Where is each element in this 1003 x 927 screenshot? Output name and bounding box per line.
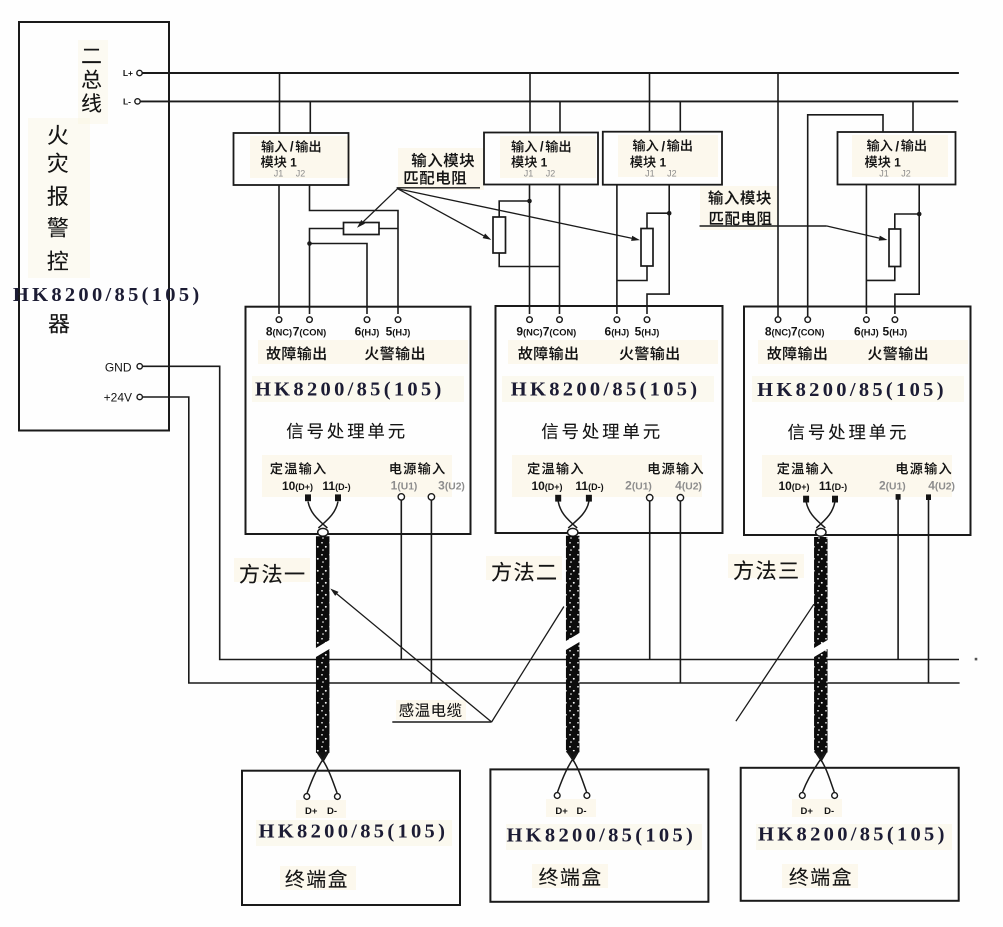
I/O module box 3 输入/输出模块1 bbox=[603, 132, 722, 185]
unit U1 label 电源输入 bbox=[390, 462, 445, 474]
signal processing unit box U2 bbox=[496, 306, 723, 533]
svg-text:10(D+): 10(D+) bbox=[531, 479, 562, 493]
callout line to cable 3 bbox=[736, 604, 814, 721]
wire unit1 U1 power to GND rail bbox=[400, 500, 402, 659]
svg-text:D-: D- bbox=[576, 806, 586, 817]
terminal box 1 pin label D+ bbox=[305, 806, 318, 817]
svg-text:4(U2): 4(U2) bbox=[675, 479, 702, 493]
svg-text:D+: D+ bbox=[555, 806, 568, 817]
terminal +24V label bbox=[104, 391, 132, 405]
unit U2 pin label 4(U2) bbox=[675, 479, 702, 493]
callout line to cable 2 bbox=[492, 607, 564, 723]
I/O module box 1 输入/输出模块1 bbox=[234, 133, 349, 185]
svg-text:L-: L- bbox=[123, 96, 131, 106]
unit U1 pin label 6(HJ) bbox=[355, 325, 380, 339]
unit U3 terminal 5(HJ) bbox=[892, 317, 898, 323]
svg-text:11(D-): 11(D-) bbox=[575, 479, 603, 493]
junction dot bbox=[667, 211, 672, 216]
unit U2 pin label 9(NC) bbox=[516, 325, 542, 339]
unit U1 terminal 5(HJ) bbox=[395, 317, 401, 323]
unit U2 pin label 11(D-) bbox=[575, 479, 603, 493]
terminal box 2 pin label D+ bbox=[555, 806, 568, 817]
wire unit2 U1 power to GND rail bbox=[649, 501, 651, 660]
svg-text:J1: J1 bbox=[274, 169, 284, 179]
unit U3 pin label 4(U2) bbox=[928, 479, 955, 493]
sensing cable 1 (感温电缆, hatched) bbox=[316, 536, 330, 762]
wire resistor R4 top lead bbox=[895, 214, 919, 229]
unit U2 pin label 10(D+) bbox=[531, 479, 562, 493]
terminal box 2 D+ terminal bbox=[554, 793, 560, 799]
wire +24V from controller bbox=[143, 397, 960, 683]
svg-text:9(NC): 9(NC) bbox=[516, 325, 542, 339]
unit U1 power terminal U2 bbox=[428, 494, 434, 500]
svg-text:1(U1): 1(U1) bbox=[391, 479, 418, 493]
label A 输入模块匹配电阻 (callout) bbox=[397, 153, 480, 188]
svg-text:1: 1 bbox=[894, 156, 901, 170]
unit U1 terminal 10(D+) (filled square) bbox=[305, 494, 311, 501]
terminal box 2 D- terminal bbox=[584, 793, 590, 799]
unit U2 label 故障输出 bbox=[518, 346, 577, 360]
svg-text:/: / bbox=[895, 139, 899, 154]
svg-text:2(U1): 2(U1) bbox=[625, 479, 652, 493]
unit U2 model HK8200/85(105) bbox=[511, 378, 701, 400]
terminal box 3 model HK8200/85(105) bbox=[758, 824, 948, 846]
label 方法二 (method 2) bbox=[492, 562, 556, 582]
wire module2 J2 to unit2 terminal 7(CON) bbox=[559, 185, 561, 315]
wire L+ drop to unit3 terminal 8 bbox=[777, 73, 779, 317]
unit U3 terminal 7(CON) bbox=[805, 317, 811, 323]
wire resistor R2 top lead bbox=[499, 201, 529, 217]
wire module1 to unit1 terminal 8(NC) bbox=[278, 185, 280, 314]
svg-text:5(HJ): 5(HJ) bbox=[386, 325, 411, 339]
terminal L- label bbox=[123, 96, 131, 106]
unit U2 label 电源输入 bbox=[649, 462, 704, 474]
terminal box 2 pin label D- bbox=[576, 806, 586, 817]
terminal box 3 pin label D- bbox=[824, 806, 834, 817]
wire module1 J2 to unit1 terminal 5(HJ) bbox=[310, 185, 399, 314]
svg-text:8(NC): 8(NC) bbox=[266, 325, 292, 339]
resistor R2 (matching resistor, vertical) bbox=[493, 217, 506, 253]
unit U1 model HK8200/85(105) bbox=[255, 378, 445, 400]
unit U1 terminal 8(NC) bbox=[276, 317, 282, 323]
terminal GND bbox=[137, 364, 142, 369]
fire alarm controller box HK8200/85(105) bbox=[19, 22, 169, 431]
svg-text:11(D-): 11(D-) bbox=[322, 479, 350, 493]
junction dot node bbox=[307, 241, 312, 246]
label controller model HK8200/85(105) bbox=[13, 284, 203, 306]
unit U1 terminal 11(D-) (filled square) bbox=[335, 494, 341, 501]
wire pair unit U3 10/11 to cable connector (crossed) bbox=[806, 502, 835, 537]
unit U3 power terminal U1 (filled square) bbox=[896, 494, 901, 500]
svg-text:HK8200/85(105): HK8200/85(105) bbox=[511, 378, 701, 400]
unit U1 label 故障输出 bbox=[267, 346, 326, 360]
wire node to unit1 terminal 7(CON) bbox=[309, 244, 311, 315]
unit U1 label 定温输入 bbox=[270, 462, 326, 474]
unit U2 pin label 2(U1) bbox=[625, 479, 652, 493]
wire module4 J2 to L- bbox=[912, 101, 914, 132]
wire bus L- bbox=[140, 100, 958, 102]
svg-text:1: 1 bbox=[541, 156, 548, 170]
svg-text:HK8200/85(105): HK8200/85(105) bbox=[255, 378, 445, 400]
wire resistor R3 top lead bbox=[647, 213, 669, 228]
unit U1 pin label 8(NC) bbox=[266, 325, 292, 339]
svg-text:HK8200/85(105): HK8200/85(105) bbox=[757, 379, 947, 401]
svg-text:+24V: +24V bbox=[104, 391, 132, 405]
unit U1 pin label 1(U1) bbox=[391, 479, 418, 493]
terminal box 1 D+ terminal bbox=[304, 794, 310, 800]
terminal L+ label bbox=[123, 68, 133, 78]
unit U1 pin label 10(D+) bbox=[282, 479, 313, 493]
unit U3 pin label 6(HJ) bbox=[854, 325, 879, 339]
svg-text:10(D+): 10(D+) bbox=[778, 479, 809, 493]
resistor R1 (matching resistor, horizontal) bbox=[344, 223, 380, 235]
svg-text:7(CON): 7(CON) bbox=[293, 325, 327, 339]
wire bus L+ bbox=[142, 72, 959, 74]
unit U1 terminal 6(HJ) bbox=[364, 317, 370, 323]
unit U3 pin label 8(NC) bbox=[765, 325, 791, 339]
unit U3 power terminal U2 (filled square) bbox=[926, 494, 931, 500]
wire unit2 U2 power to +24V rail bbox=[679, 501, 681, 683]
svg-text:7(CON): 7(CON) bbox=[791, 325, 825, 339]
unit U2 label 定温输入 bbox=[527, 462, 583, 474]
unit U2 terminal 6(HJ) bbox=[614, 317, 620, 323]
wire module1 J2 to L- bbox=[309, 101, 311, 133]
unit U3 label 定温输入 bbox=[777, 462, 833, 474]
wire module4 to unit3 terminal 6(HJ) bbox=[865, 185, 867, 315]
unit U2 label 信号处理单元 bbox=[542, 423, 660, 439]
svg-text:D-: D- bbox=[327, 806, 337, 817]
unit U2 label 火警输出 bbox=[620, 346, 679, 360]
wire unit3 U1 power to GND rail bbox=[897, 500, 899, 660]
resistor R3 (matching resistor, vertical) bbox=[641, 229, 653, 267]
unit U3 pin label 10(D+) bbox=[778, 479, 809, 493]
unit U1 pin label 3(U2) bbox=[438, 479, 465, 493]
svg-text:HK8200/85(105): HK8200/85(105) bbox=[758, 824, 948, 846]
unit U1 power terminal U1 bbox=[398, 494, 404, 500]
svg-text:/: / bbox=[540, 139, 544, 154]
unit U3 pin label 5(HJ) bbox=[883, 325, 908, 339]
unit U2 terminal 7(CON) bbox=[557, 317, 563, 323]
unit U3 terminal 6(HJ) bbox=[864, 317, 870, 323]
svg-text:4(U2): 4(U2) bbox=[928, 479, 955, 493]
terminal box 3 (终端盒) bbox=[741, 768, 959, 901]
callout arrow to resistor R2 bbox=[398, 189, 492, 240]
svg-text:J2: J2 bbox=[901, 169, 911, 179]
signal processing unit box U3 bbox=[744, 307, 971, 536]
unit U2 terminal 9(NC) bbox=[527, 317, 533, 323]
svg-text:6(HJ): 6(HJ) bbox=[355, 325, 380, 339]
wire module2 J1 to L+ bbox=[529, 73, 531, 133]
unit U3 label 信号处理单元 bbox=[788, 424, 906, 440]
terminal box 2 label 终端盒 bbox=[539, 867, 601, 886]
unit U3 terminal 8(NC) bbox=[775, 317, 781, 323]
terminal box 1 model HK8200/85(105) bbox=[259, 821, 449, 843]
unit U3 terminal 11(D-) (filled square) bbox=[832, 496, 838, 503]
svg-text:6(HJ): 6(HJ) bbox=[854, 325, 879, 339]
svg-text:8(NC): 8(NC) bbox=[765, 325, 791, 339]
unit U3 terminal 10(D+) (filled square) bbox=[803, 496, 809, 503]
svg-text:6(HJ): 6(HJ) bbox=[605, 325, 630, 339]
svg-text:1: 1 bbox=[290, 156, 297, 170]
wire pair cable 3 to terminal box D+/D- (crossed) bbox=[803, 754, 835, 793]
wire GND from controller bbox=[143, 366, 960, 659]
wire junction dot bbox=[527, 199, 532, 204]
sensing cable 2 (感温电缆, hatched) bbox=[566, 536, 580, 762]
svg-text:7(CON): 7(CON) bbox=[543, 325, 577, 339]
unit U2 pin label 6(HJ) bbox=[605, 325, 630, 339]
unit U1 terminal 7(CON) bbox=[307, 317, 313, 323]
terminal box 2 model HK8200/85(105) bbox=[506, 825, 696, 847]
svg-text:HK8200/85(105): HK8200/85(105) bbox=[259, 821, 449, 843]
wire module2 to unit2 terminal 9(NC) bbox=[529, 185, 531, 315]
terminal box 1 (终端盒) bbox=[242, 771, 460, 905]
svg-text:J2: J2 bbox=[667, 169, 677, 179]
label B 输入模块匹配电阻 (callout) bbox=[708, 190, 771, 225]
terminal box 3 pin label D+ bbox=[800, 806, 813, 817]
terminal GND label bbox=[105, 360, 132, 374]
svg-text:1: 1 bbox=[659, 156, 666, 170]
unit U1 label 火警输出 bbox=[365, 346, 424, 360]
wire pair cable 1 to terminal box D+/D- (crossed) bbox=[307, 754, 337, 793]
wire unit3 U2 power to +24V rail bbox=[928, 500, 930, 683]
unit U2 terminal 5(HJ) bbox=[644, 317, 650, 323]
svg-text:D-: D- bbox=[824, 806, 834, 817]
label bus name 二总线 (vertical) bbox=[82, 49, 101, 113]
I/O module box 4 输入/输出模块1 bbox=[838, 132, 956, 185]
label controller name 火灾报警控 (vertical) bbox=[47, 125, 68, 271]
label 感温电缆 (callout) bbox=[392, 703, 491, 722]
terminal box 3 label 终端盒 bbox=[789, 867, 851, 886]
callout arrow to resistor R3 bbox=[398, 189, 640, 241]
wire module3 to unit2 terminal 6(HJ) bbox=[616, 185, 618, 314]
svg-text:D+: D+ bbox=[305, 806, 318, 817]
svg-text:GND: GND bbox=[105, 360, 132, 374]
svg-text:HK8200/85(105): HK8200/85(105) bbox=[13, 284, 203, 306]
svg-text:5(HJ): 5(HJ) bbox=[883, 325, 908, 339]
unit U2 pin label 7(CON) bbox=[543, 325, 577, 339]
terminal box 3 D+ terminal bbox=[799, 793, 805, 799]
svg-text:10(D+): 10(D+) bbox=[282, 479, 313, 493]
unit U3 pin label 2(U1) bbox=[879, 479, 906, 493]
wire resistor R3 bottom lead bbox=[617, 266, 647, 281]
unit U3 pin label 11(D-) bbox=[819, 479, 847, 493]
unit U2 power terminal U1 bbox=[647, 495, 653, 501]
svg-text:11(D-): 11(D-) bbox=[819, 479, 847, 493]
wire module4 J1 to unit3 terminal 7 bbox=[808, 115, 883, 317]
label controller name 器 bbox=[49, 314, 70, 333]
unit U3 label 火警输出 bbox=[868, 346, 927, 360]
unit U2 pin label 5(HJ) bbox=[635, 325, 660, 339]
svg-text:3(U2): 3(U2) bbox=[438, 479, 465, 493]
unit U1 pin label 11(D-) bbox=[322, 479, 350, 493]
wire module2 J2 to L- bbox=[559, 101, 561, 132]
unit U2 power terminal U2 bbox=[677, 495, 683, 501]
sensing cable 3 (感温电缆, hatched) bbox=[814, 537, 828, 762]
svg-text:J1: J1 bbox=[645, 169, 655, 179]
terminal box 2 (终端盒) bbox=[490, 769, 708, 901]
svg-text:J2: J2 bbox=[546, 169, 556, 179]
resistor R4 (matching resistor, vertical) bbox=[889, 229, 901, 267]
svg-text:J2: J2 bbox=[296, 169, 306, 179]
wire pair cable 2 to terminal box D+/D- (crossed) bbox=[558, 753, 587, 792]
unit U2 terminal 10(D+) (filled square) bbox=[555, 495, 561, 502]
terminal box 3 D- terminal bbox=[832, 793, 838, 799]
svg-text:/: / bbox=[290, 139, 294, 154]
svg-text:2(U1): 2(U1) bbox=[879, 479, 906, 493]
unit U3 label 电源输入 bbox=[897, 462, 952, 474]
svg-text:J1: J1 bbox=[879, 169, 889, 179]
wire resistor R1 left lead bbox=[310, 229, 344, 244]
wire resistor R1 right lead bbox=[379, 228, 398, 230]
svg-text:D+: D+ bbox=[800, 806, 813, 817]
wire node to unit1 terminal 6(HJ) bbox=[310, 244, 368, 315]
stray dot artifact bbox=[975, 658, 978, 661]
svg-text:5(HJ): 5(HJ) bbox=[635, 325, 660, 339]
terminal L+ bbox=[137, 70, 142, 75]
wire module3 J2 to L- bbox=[679, 101, 681, 131]
wire pair unit U2 10/11 to cable connector (crossed) bbox=[558, 502, 589, 537]
junction dot bbox=[917, 212, 922, 217]
label 方法三 (method 3) bbox=[734, 560, 798, 580]
wire module3 J1 to L+ bbox=[649, 73, 651, 132]
terminal box 1 pin label D- bbox=[327, 806, 337, 817]
wire module1 J1 to L+ bbox=[279, 73, 281, 133]
callout arrow to cable 1 bbox=[330, 589, 491, 723]
wire pair unit U1 10/11 to cable connector (crossed) bbox=[308, 502, 338, 537]
I/O module box 2 输入/输出模块1 bbox=[484, 133, 598, 185]
callout arrow to resistor R1 bbox=[357, 189, 398, 228]
svg-text:HK8200/85(105): HK8200/85(105) bbox=[506, 825, 696, 847]
wire module3 J2 to unit2 terminal 5(HJ) bbox=[647, 185, 669, 314]
terminal box 1 label 终端盒 bbox=[285, 869, 347, 888]
unit U3 pin label 7(CON) bbox=[791, 325, 825, 339]
callout underline and arrow to resistor R4 bbox=[700, 226, 888, 241]
label 方法一 (method 1) bbox=[240, 564, 305, 584]
unit U1 pin label 7(CON) bbox=[293, 325, 327, 339]
unit U3 model HK8200/85(105) bbox=[757, 379, 947, 401]
wire module4 J2 to unit3 terminal 5(HJ) bbox=[895, 185, 919, 315]
unit U2 terminal 11(D-) (filled square) bbox=[586, 495, 592, 502]
svg-text:L+: L+ bbox=[123, 68, 133, 78]
wire unit1 U2 power to +24V rail bbox=[430, 500, 432, 683]
signal processing unit box U1 bbox=[246, 307, 471, 534]
unit U1 label 信号处理单元 bbox=[287, 423, 405, 439]
svg-text:/: / bbox=[661, 139, 665, 154]
terminal +24V bbox=[137, 394, 142, 399]
unit U3 label 故障输出 bbox=[767, 346, 826, 360]
wire resistor R2 bottom lead bbox=[499, 253, 559, 267]
wire resistor R4 bottom lead bbox=[866, 267, 894, 281]
unit U1 pin label 5(HJ) bbox=[386, 325, 411, 339]
terminal box 1 D- terminal bbox=[335, 794, 341, 800]
terminal L- bbox=[135, 99, 140, 104]
svg-text:J1: J1 bbox=[524, 169, 534, 179]
